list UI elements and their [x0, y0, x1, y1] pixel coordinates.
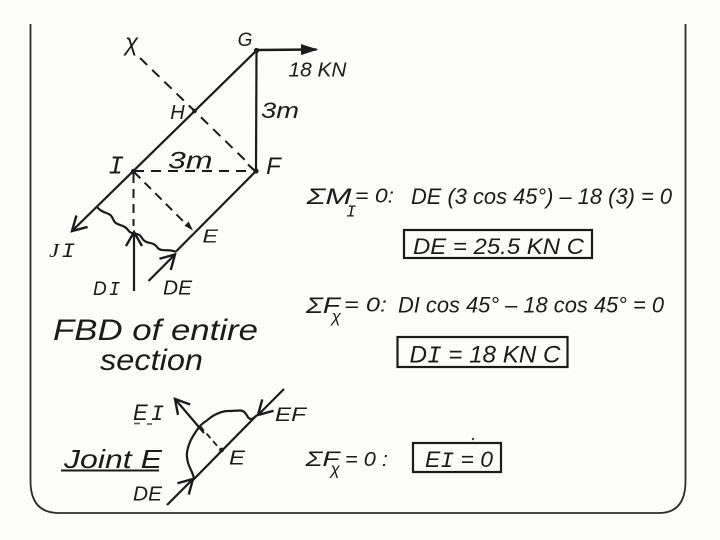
- svg-text:FBD of entire: FBD of entire: [53, 314, 258, 347]
- svg-text:G: G: [238, 30, 253, 51]
- svg-text:JI: JI: [49, 240, 75, 264]
- svg-text:section: section: [100, 344, 203, 377]
- svg-text:E: E: [229, 448, 246, 470]
- svg-text:EF: EF: [275, 405, 308, 426]
- node dot H: [192, 109, 197, 114]
- svg-text:DE: DE: [133, 484, 163, 506]
- force arrow DE joint: [167, 479, 193, 505]
- svg-text:DI: DI: [93, 279, 120, 301]
- dashed line I-E with small arrowhead: [134, 172, 187, 225]
- force arrow 18 KN: [257, 48, 317, 51]
- svg-text:F: F: [266, 153, 282, 180]
- svg-text:3m: 3m: [261, 98, 299, 123]
- svg-text:DI = 18 KN C: DI = 18 KN C: [410, 342, 562, 371]
- joint E blob: [187, 411, 257, 480]
- force arrow DE: [149, 255, 176, 282]
- svg-text:DE = 25.5 KN C: DE = 25.5 KN C: [413, 234, 584, 259]
- svg-text:DE: DE: [163, 278, 193, 300]
- svg-text:3m: 3m: [168, 148, 213, 175]
- stray marks under EI: [134, 423, 140, 425]
- joint E dot: [219, 448, 224, 453]
- svg-text:E: E: [203, 227, 220, 247]
- svg-text:= 0 :: = 0 :: [345, 449, 388, 471]
- dashed line I downward: [133, 174, 135, 226]
- svg-text:χ: χ: [329, 460, 341, 479]
- member G-F: [255, 51, 258, 172]
- svg-text:χ: χ: [330, 307, 342, 326]
- dashed x-axis through H: [140, 58, 247, 162]
- svg-text:= 0:: = 0:: [344, 295, 387, 317]
- svg-text:= 0:: = 0:: [355, 186, 394, 208]
- stray dot above box: [472, 438, 474, 440]
- svg-text:DI cos 45° – 18 cos 45° = 0: DI cos 45° – 18 cos 45° = 0: [398, 293, 665, 318]
- force arrow DI: [133, 232, 135, 291]
- node dot G: [254, 48, 259, 53]
- dashed x-axis inside blob: [200, 426, 219, 448]
- node dot F: [253, 168, 258, 173]
- svg-text:χ: χ: [123, 30, 139, 57]
- force arrow EF: [258, 389, 284, 415]
- svg-text:18 KN: 18 KN: [289, 60, 348, 82]
- svg-text:H: H: [170, 102, 185, 124]
- force arrow EI: [175, 399, 204, 433]
- wavy section cut line: [98, 208, 177, 253]
- answer box DI: [398, 337, 568, 367]
- svg-text:DE (3 cos 45°) – 18 (3) = 0: DE (3 cos 45°) – 18 (3) = 0: [411, 184, 673, 209]
- node dot I: [131, 169, 136, 174]
- member G-I extended to JI force arrow: [72, 51, 257, 232]
- dashed line I-F with arrowhead barb at F: [134, 170, 253, 172]
- answer box DE: [404, 230, 592, 258]
- svg-text:EI = 0: EI = 0: [425, 447, 494, 474]
- answer box EI: [413, 443, 501, 472]
- svg-text:I: I: [108, 152, 124, 182]
- member F-E extended to cut: [176, 171, 256, 252]
